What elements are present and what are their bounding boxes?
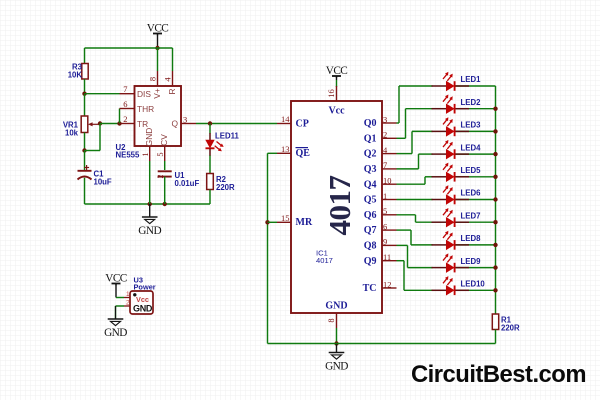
svg-text:6: 6 xyxy=(123,99,127,109)
svg-text:10uF: 10uF xyxy=(94,178,112,187)
svg-text:2: 2 xyxy=(123,114,127,124)
svg-text:Q0: Q0 xyxy=(364,118,377,129)
wire xyxy=(406,108,433,110)
svg-text:LED10: LED10 xyxy=(461,280,486,289)
wire xyxy=(116,305,125,307)
node VR1 bottom junction xyxy=(82,148,86,152)
node bus junction xyxy=(493,129,497,133)
svg-text:Q5: Q5 xyxy=(364,195,377,206)
svg-text:V+: V+ xyxy=(152,88,162,99)
svg-text:3: 3 xyxy=(383,114,387,124)
wire xyxy=(336,76,338,80)
wire xyxy=(419,153,433,155)
svg-text:4017: 4017 xyxy=(322,176,357,236)
pin 6 THR xyxy=(120,108,135,110)
node VR1 wiper junction xyxy=(98,121,102,125)
pin 1 Vcc xyxy=(124,297,130,299)
svg-text:LED8: LED8 xyxy=(461,234,482,243)
svg-text:3: 3 xyxy=(183,114,187,124)
pin 12 TC xyxy=(382,287,397,289)
wire xyxy=(416,221,433,223)
ground symbol (4017) xyxy=(336,344,338,353)
wire VR1 bottom xyxy=(84,133,86,151)
svg-text:DIS: DIS xyxy=(137,89,151,99)
node DIS junction xyxy=(82,92,86,96)
op-amp U2 NE555 body xyxy=(135,86,182,146)
node VCC junction xyxy=(155,46,159,50)
svg-text:11: 11 xyxy=(383,252,391,262)
pin 13 QE xyxy=(277,152,291,154)
wire xyxy=(455,289,496,291)
wire xyxy=(455,267,496,269)
resistor R1 xyxy=(492,314,498,330)
pin 8 V+ xyxy=(157,71,159,86)
wire xyxy=(455,108,496,110)
wire Q3 to LED4 xyxy=(397,168,419,170)
wire xyxy=(455,199,496,201)
capacitor U1 0.01uF xyxy=(158,170,172,172)
svg-text:5: 5 xyxy=(155,152,165,156)
node LED11 junction xyxy=(208,121,212,125)
capacitor C1 polarized xyxy=(78,170,92,172)
svg-text:16: 16 xyxy=(326,89,336,98)
wire xyxy=(84,48,86,64)
wire bottom rail xyxy=(268,343,496,345)
svg-text:12: 12 xyxy=(383,279,392,289)
wire xyxy=(84,79,86,94)
node bus junction xyxy=(493,152,497,156)
svg-text:9: 9 xyxy=(383,237,387,247)
svg-text:5: 5 xyxy=(383,206,387,216)
node ground junction xyxy=(334,341,338,345)
wire pin5 to U1 xyxy=(164,161,166,170)
wire Q5 to LED6 xyxy=(397,199,433,201)
wire xyxy=(432,199,434,201)
wire xyxy=(455,176,496,178)
wire xyxy=(495,330,497,344)
svg-text:LED4: LED4 xyxy=(461,143,482,152)
node MR junction xyxy=(265,220,269,224)
svg-text:10k: 10k xyxy=(65,129,79,138)
svg-text:15: 15 xyxy=(281,213,290,223)
wire xyxy=(408,267,433,269)
wire Q6 to LED7 xyxy=(397,214,416,216)
svg-text:10K: 10K xyxy=(68,71,83,80)
svg-text:LED1: LED1 xyxy=(461,75,482,84)
wire Q2 to LED3 xyxy=(397,153,413,155)
wire xyxy=(399,85,433,87)
pin 8 GND xyxy=(336,313,338,328)
svg-text:LED7: LED7 xyxy=(461,211,481,220)
wire xyxy=(412,130,433,132)
counter IC1 4017 body xyxy=(291,101,382,313)
wire xyxy=(455,85,496,87)
ground symbol (flag) xyxy=(115,306,117,319)
wire xyxy=(455,153,496,155)
wire Q4 to LED5 xyxy=(397,183,426,185)
pin 1 GND xyxy=(149,146,151,161)
svg-text:14: 14 xyxy=(281,114,290,124)
svg-text:1: 1 xyxy=(140,152,150,156)
svg-text:220R: 220R xyxy=(501,324,520,333)
svg-text:8: 8 xyxy=(326,318,336,322)
wire Q9 to LED10 xyxy=(397,260,405,262)
svg-text:Q7: Q7 xyxy=(364,225,377,236)
svg-text:Q1: Q1 xyxy=(364,133,377,144)
node bus junction xyxy=(493,175,497,179)
wire xyxy=(84,94,86,116)
svg-text:R: R xyxy=(167,88,177,94)
svg-text:LED9: LED9 xyxy=(461,257,482,266)
pin 7 DIS xyxy=(120,93,135,95)
wire xyxy=(115,284,117,298)
wire xyxy=(455,130,496,132)
svg-text:8: 8 xyxy=(147,77,157,81)
pin 2 Q1 xyxy=(382,137,397,139)
svg-text:LED6: LED6 xyxy=(461,189,482,198)
svg-text:LED11: LED11 xyxy=(215,132,239,141)
node THR-TR junction xyxy=(117,121,121,125)
svg-text:TC: TC xyxy=(363,283,377,294)
pin 1 Q5 xyxy=(382,199,397,201)
wire DIS to R3/VR1 node xyxy=(85,93,120,95)
ground symbol (555) xyxy=(149,204,151,217)
wire xyxy=(84,178,86,204)
pin 4 R xyxy=(172,71,174,86)
svg-text:LED2: LED2 xyxy=(461,98,482,107)
svg-text:220R: 220R xyxy=(216,183,235,192)
wire Q7 to LED8 xyxy=(397,229,412,231)
svg-text:GND: GND xyxy=(133,303,153,313)
svg-text:Q9: Q9 xyxy=(364,256,377,267)
wire xyxy=(209,156,211,174)
pin 11 Q9 xyxy=(382,260,397,262)
node GND junction pin1 xyxy=(148,202,152,206)
node bus junction xyxy=(493,220,497,224)
wire xyxy=(411,244,433,246)
node bus junction xyxy=(493,265,497,269)
svg-text:CP: CP xyxy=(296,118,309,129)
potentiometer VR1 xyxy=(81,116,88,133)
svg-text:LED3: LED3 xyxy=(461,121,482,130)
node bus junction xyxy=(493,197,497,201)
wire xyxy=(84,151,86,171)
wire xyxy=(157,48,159,71)
svg-text:GND: GND xyxy=(104,327,127,339)
wire xyxy=(455,221,496,223)
pin 2 GND xyxy=(124,305,130,307)
svg-text:Q6: Q6 xyxy=(364,210,377,221)
pin 15 MR xyxy=(277,221,291,223)
svg-text:NE555: NE555 xyxy=(116,150,141,159)
wire pin1 to ground rail xyxy=(149,161,151,204)
svg-text:QE: QE xyxy=(296,148,311,159)
svg-text:THR: THR xyxy=(137,104,154,114)
pin 9 Q8 xyxy=(382,244,397,246)
svg-text:6: 6 xyxy=(383,221,387,231)
pin 10 Q4 xyxy=(382,183,397,185)
wire xyxy=(172,48,174,71)
svg-text:2: 2 xyxy=(383,130,387,140)
wire Q8 to LED9 xyxy=(397,244,408,246)
svg-text:TR: TR xyxy=(137,119,148,129)
pin 3 Q0 xyxy=(382,122,397,124)
svg-text:Q8: Q8 xyxy=(364,241,377,252)
svg-text:Power: Power xyxy=(134,283,156,292)
wire xyxy=(404,289,433,291)
node bus junction xyxy=(493,288,497,292)
svg-text:7: 7 xyxy=(383,160,387,170)
svg-text:Q3: Q3 xyxy=(364,164,377,175)
wire xyxy=(209,190,211,205)
svg-text:CircuitBest.com: CircuitBest.com xyxy=(411,361,586,388)
svg-text:1: 1 xyxy=(126,291,130,298)
svg-text:MR: MR xyxy=(296,217,313,228)
node junction U1 xyxy=(163,202,167,206)
pin 4 Q2 xyxy=(382,153,397,155)
pin 6 Q7 xyxy=(382,229,397,231)
wire 4017 pin8 to ground xyxy=(336,328,338,344)
svg-text:GND: GND xyxy=(325,301,347,312)
wire ground rail (555) xyxy=(85,203,211,205)
wire THR jog xyxy=(119,109,121,124)
wire Q0 to LED1 xyxy=(397,122,400,124)
svg-text:CV: CV xyxy=(159,134,169,146)
LED11 diode xyxy=(209,133,211,140)
svg-text:1: 1 xyxy=(383,191,387,201)
svg-text:0.01uF: 0.01uF xyxy=(175,179,200,188)
wire xyxy=(268,221,278,223)
svg-text:LED5: LED5 xyxy=(461,166,482,175)
svg-text:2: 2 xyxy=(126,300,130,307)
svg-text:Q4: Q4 xyxy=(364,179,377,190)
wire xyxy=(425,176,433,178)
wire VCC rail xyxy=(85,47,173,49)
wire LED cathode bus xyxy=(495,86,497,314)
svg-text:4017: 4017 xyxy=(316,256,333,265)
wire VR1 bottom to wiper xyxy=(85,150,101,152)
pin 3 Q output xyxy=(181,123,196,125)
resistor R3 xyxy=(82,64,88,80)
pin 5 Q6 xyxy=(382,214,397,216)
wire QE down to MR xyxy=(268,152,278,154)
svg-text:10: 10 xyxy=(383,176,392,186)
wire xyxy=(157,34,159,49)
wire xyxy=(164,177,166,204)
pin 16 Vcc xyxy=(336,86,338,101)
wire xyxy=(209,124,211,134)
wire xyxy=(455,244,496,246)
wire xyxy=(116,297,124,299)
svg-text:Q2: Q2 xyxy=(364,149,377,160)
wire Q1 to LED2 xyxy=(397,137,406,139)
svg-text:Vcc: Vcc xyxy=(328,106,345,117)
svg-text:GND: GND xyxy=(138,225,161,237)
wire wiper to TR xyxy=(100,123,120,125)
pin 7 Q3 xyxy=(382,168,397,170)
svg-text:GND: GND xyxy=(325,361,348,373)
svg-text:Q: Q xyxy=(171,119,178,129)
resistor R2 xyxy=(207,174,214,190)
node bus junction xyxy=(493,107,497,111)
pin 14 CP xyxy=(277,123,291,125)
node bus junction xyxy=(493,243,497,247)
wire 555 output to CP xyxy=(196,123,277,125)
svg-text:GND: GND xyxy=(144,128,154,147)
svg-text:2: 2 xyxy=(156,175,165,179)
svg-text:7: 7 xyxy=(123,84,127,94)
pin 2 TR xyxy=(120,123,135,125)
svg-text:13: 13 xyxy=(281,144,290,154)
pin 5 CV xyxy=(164,146,166,161)
power flag U3 body xyxy=(130,291,153,314)
